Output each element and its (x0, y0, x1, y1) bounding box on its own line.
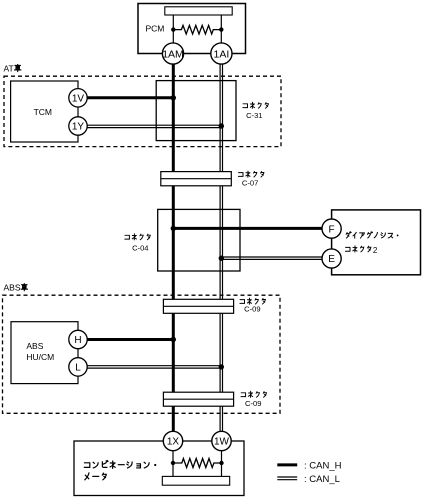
wire CAN_H from bus to pin F (173, 227, 322, 230)
svg-text:ABS: ABS (4, 283, 21, 293)
meter internal bus bar (162, 476, 229, 485)
wire 1X to resistor (172, 450, 174, 463)
wire CAN_L vertical bus (1AI to 1W) (220, 60, 222, 435)
svg-text:1V: 1V (72, 93, 85, 104)
pin 1X (163, 431, 182, 450)
node junction 1Y wire (219, 123, 224, 128)
label AT車 (4, 64, 21, 74)
PCM internal bus bar (165, 7, 232, 15)
svg-text:C-09: C-09 (244, 305, 260, 314)
pin 1V (69, 89, 87, 107)
resistor meter terminating (171, 459, 224, 468)
connector C-07 bar (161, 171, 264, 187)
pin 1Y (69, 117, 87, 135)
pin 1W (212, 431, 231, 450)
pin H (69, 330, 87, 348)
wire CAN_H vertical bus (1AM to 1X) (172, 60, 175, 435)
svg-text:1AM: 1AM (162, 48, 184, 60)
connector C-04 box (125, 209, 240, 271)
svg-text:AT: AT (4, 64, 14, 74)
pin F (322, 219, 341, 238)
wire resistor right to meter bar (221, 463, 223, 477)
PCM box (138, 4, 246, 54)
wire CAN_L from 1Y to bus (86, 125, 223, 127)
ABS group dashed box (3, 295, 281, 413)
wire CAN_L from bus to pin E (220, 257, 323, 259)
TCM box (11, 81, 78, 142)
svg-text:: CAN_L: : CAN_L (304, 474, 340, 485)
svg-text:C-31: C-31 (246, 111, 262, 120)
node junction E wire (219, 256, 224, 261)
node junction F wire (171, 226, 176, 231)
svg-text:: CAN_H: : CAN_H (304, 460, 342, 471)
svg-text:1AI: 1AI (214, 48, 230, 60)
combination meter box (74, 441, 244, 496)
wire PCM bar to resistor right (220, 15, 222, 44)
svg-text:L: L (75, 362, 81, 373)
svg-text:C-07: C-07 (242, 178, 258, 187)
svg-text:1Y: 1Y (72, 122, 85, 133)
connector C-09 top bar (163, 298, 265, 313)
label ABS車 (4, 283, 28, 293)
svg-text:HU/CM: HU/CM (26, 352, 54, 362)
ABS HU/CM box (11, 322, 78, 384)
resistor PCM terminating (171, 25, 223, 34)
svg-text:C-04: C-04 (132, 244, 148, 253)
svg-text:C-09: C-09 (245, 399, 261, 408)
wire 1W to resistor (221, 450, 223, 463)
svg-text:F: F (329, 224, 335, 235)
node junction H wire (171, 337, 176, 342)
legend CAN_L (277, 474, 340, 485)
pin L (69, 358, 87, 376)
connector C-09 bottom bar (163, 391, 266, 408)
legend CAN_H (277, 460, 341, 471)
svg-text:2: 2 (373, 246, 378, 255)
svg-text:TCM: TCM (34, 107, 52, 117)
node junction L wire (219, 364, 224, 369)
AT group dashed box (4, 76, 281, 146)
wire CAN_L from L to bus (86, 366, 223, 368)
connector C-31 box (156, 81, 268, 141)
svg-text:1W: 1W (214, 437, 230, 448)
svg-text:ABS: ABS (26, 341, 43, 351)
node junction 1V wire (171, 95, 176, 100)
wire CAN_H from H to bus (86, 338, 173, 341)
wire CAN_H from 1V to bus (86, 96, 173, 99)
wire resistor left to meter bar (172, 463, 174, 477)
pin E (322, 249, 341, 268)
wire PCM bar to resistor left (172, 15, 174, 44)
diagnosis connector 2 box (332, 210, 421, 275)
pin 1AI (211, 43, 232, 64)
svg-text:PCM: PCM (146, 24, 165, 34)
pin 1AM (162, 43, 184, 64)
svg-text:H: H (74, 335, 81, 346)
svg-text:E: E (328, 254, 335, 265)
svg-text:1X: 1X (167, 437, 180, 448)
